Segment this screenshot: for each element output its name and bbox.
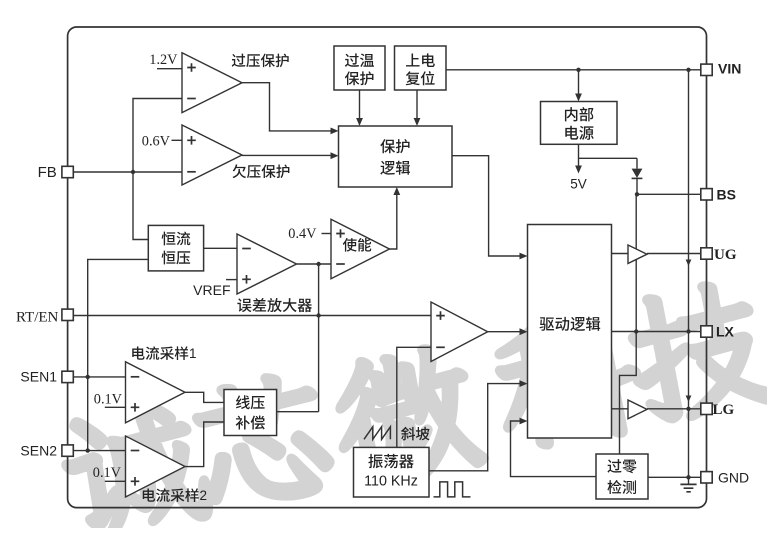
wire oscillator ramp to PWM comparator inverting input (397, 347, 431, 447)
svg-text:LG: LG (713, 402, 735, 418)
op-amp error amplifier (237, 234, 297, 294)
watermark 诚芯微科技 (56, 276, 767, 533)
block drive logic 驱动逻辑 (528, 225, 612, 439)
wire POR block to protection logic (416, 90, 418, 119)
block protection logic 保护逻辑 (339, 126, 453, 187)
label 欠压保护 (233, 164, 290, 178)
label 误差放大器 (237, 298, 312, 312)
node GND junction (686, 475, 690, 479)
wire OVP output to protection logic (242, 83, 331, 131)
label 过压保护 (232, 54, 289, 68)
wire LX net from drive logic to LX pin (612, 331, 701, 333)
wire zero-cross detect output to drive logic (511, 421, 597, 477)
arrow on rail above UG driver feed (686, 260, 692, 267)
buffer UG driver (628, 245, 647, 264)
wire OTP block to protection logic (359, 90, 361, 119)
svg-text:0.1V: 0.1V (93, 465, 122, 481)
svg-text:BS: BS (717, 186, 736, 202)
svg-text:1: 1 (189, 346, 197, 361)
svg-text:0.1V: 0.1V (94, 391, 123, 407)
block POR 上电复位 (395, 46, 447, 90)
ramp waveform icon 斜坡 (364, 427, 390, 440)
wire CC/CV output to error amp inverting input (204, 247, 237, 249)
node LX junction at driver rail (634, 329, 638, 333)
node COMP junction on RT/EN line (316, 313, 320, 317)
pin LX (701, 326, 712, 337)
IC outline box (68, 27, 707, 508)
node VIN junction to rail (686, 68, 690, 72)
node junction on SEN1 wire (86, 375, 90, 379)
block oscillator 振荡器 110KHz (354, 447, 430, 497)
block line compensation 线压补偿 (224, 390, 277, 436)
pin SEN1 (62, 371, 73, 382)
wire COMP vertical to line compensation output (318, 264, 320, 412)
wire VREF stub (226, 279, 237, 281)
wire enable comparator output up to protection logic (390, 194, 397, 249)
pin RT/EN (62, 309, 73, 320)
wire internal supply output to 5V and bootstrap diode (579, 144, 638, 166)
svg-text:5V: 5V (570, 177, 587, 192)
label 使能 (343, 238, 371, 252)
op-amp current sense 1 (126, 362, 186, 423)
svg-text:1.2V: 1.2V (149, 52, 178, 68)
svg-text:2: 2 (200, 488, 208, 503)
node FB junction (131, 170, 135, 174)
block OTP 过温保护 (334, 46, 385, 90)
op-amp OVP overvoltage comparator (182, 53, 242, 113)
node LG junction at VIN rail (686, 407, 690, 411)
wire LX sense step down to zero-cross detect (620, 332, 637, 455)
arrow on rail above LG driver feed (686, 396, 692, 403)
svg-text:LX: LX (716, 324, 735, 340)
node junction on SEN2 wire (86, 448, 90, 452)
pin BS (701, 189, 712, 200)
svg-text:RT/EN: RT/EN (16, 310, 59, 326)
wire FB junction up to OVP inverting input (133, 99, 182, 173)
pin UG (701, 248, 712, 259)
ground symbol (688, 477, 690, 484)
svg-text:0.4V: 0.4V (288, 226, 317, 242)
node BS junction (635, 192, 639, 196)
block zero-cross detect 过零检测 (596, 454, 648, 499)
wire UG driver output to UG pin (647, 253, 701, 255)
pin GND (701, 472, 712, 483)
wire diode cathode to BS (636, 178, 638, 194)
wire current sense 2 output to line compensation (185, 422, 224, 467)
wire drive logic to UG driver input (612, 253, 629, 255)
wire BS down to UG driver (635, 194, 637, 331)
wire FB junction down to CC/CV block (133, 172, 148, 240)
op-amp current sense 2 (126, 436, 186, 497)
wire oscillator clock to drive logic (429, 384, 520, 471)
svg-text:VREF: VREF (193, 282, 230, 298)
label 电流采样1 (132, 346, 188, 360)
wire drive logic to LG driver input (612, 408, 629, 410)
wire POR to VIN pin (446, 69, 701, 71)
block internal supply 内部电源 (541, 102, 618, 145)
node VIN junction to internal supply (576, 68, 580, 72)
pin FB (62, 166, 73, 177)
svg-text:GND: GND (718, 470, 749, 486)
wire 0.6V reference stub (172, 139, 183, 141)
svg-text:UG: UG (714, 247, 737, 263)
wire current sense 1 output to line compensation (185, 392, 224, 402)
wire protection logic output to drive logic (452, 156, 520, 256)
svg-text:SEN2: SEN2 (20, 443, 57, 459)
op-amp UVP undervoltage comparator (182, 125, 242, 185)
op-amp enable comparator 使能 (331, 219, 390, 278)
wire diode anode (636, 158, 638, 168)
wire 0.4V reference stub (322, 233, 332, 235)
pin SEN2 (62, 445, 73, 456)
pin LG (701, 403, 712, 414)
node COMP junction (316, 262, 320, 266)
block CC/CV 恒流恒压 (148, 225, 203, 271)
label 斜坡 (401, 427, 429, 441)
wire BS net to BS pin (637, 193, 701, 195)
wire UVP output to protection logic (242, 154, 331, 156)
wire SEN1 pin to current sense 1 (73, 376, 125, 378)
wire CC/CV lower input from SEN1/SEN2 rail (88, 259, 149, 450)
label 电流采样2 (143, 488, 199, 502)
wire error amp output to enable comparator (297, 263, 332, 265)
pin VIN (701, 64, 712, 75)
wire LG driver output to LG pin (647, 408, 701, 410)
wire PWM comparator output to drive logic (488, 331, 520, 333)
svg-text:110 KHz: 110 KHz (364, 473, 418, 489)
buffer LG driver (628, 400, 647, 419)
wire 1.2V reference stub (157, 68, 182, 70)
wire VIN rail down right side (688, 70, 690, 478)
node LX junction at VIN rail (686, 329, 690, 333)
svg-text:FB: FB (38, 164, 57, 181)
wire FB to UVP inverting input (73, 171, 182, 173)
wire RT/EN to PWM comparator non-inverting input (73, 315, 431, 317)
clock waveform icon (434, 482, 471, 497)
svg-text:0.6V: 0.6V (142, 133, 171, 149)
wire GND net from zero-cross detect to GND pin (648, 476, 701, 478)
op-amp PWM comparator (431, 302, 488, 362)
wire 0.1V stub 2 (105, 480, 126, 482)
wire 0.1V stub 1 (105, 406, 126, 408)
wire line compensation output (277, 411, 319, 413)
diode D1 bootstrap (632, 169, 643, 178)
svg-text:VIN: VIN (718, 61, 741, 77)
svg-text:SEN1: SEN1 (20, 369, 57, 385)
wire VIN to internal supply block (578, 70, 580, 94)
wire SEN2 pin to current sense 2 (73, 450, 125, 452)
